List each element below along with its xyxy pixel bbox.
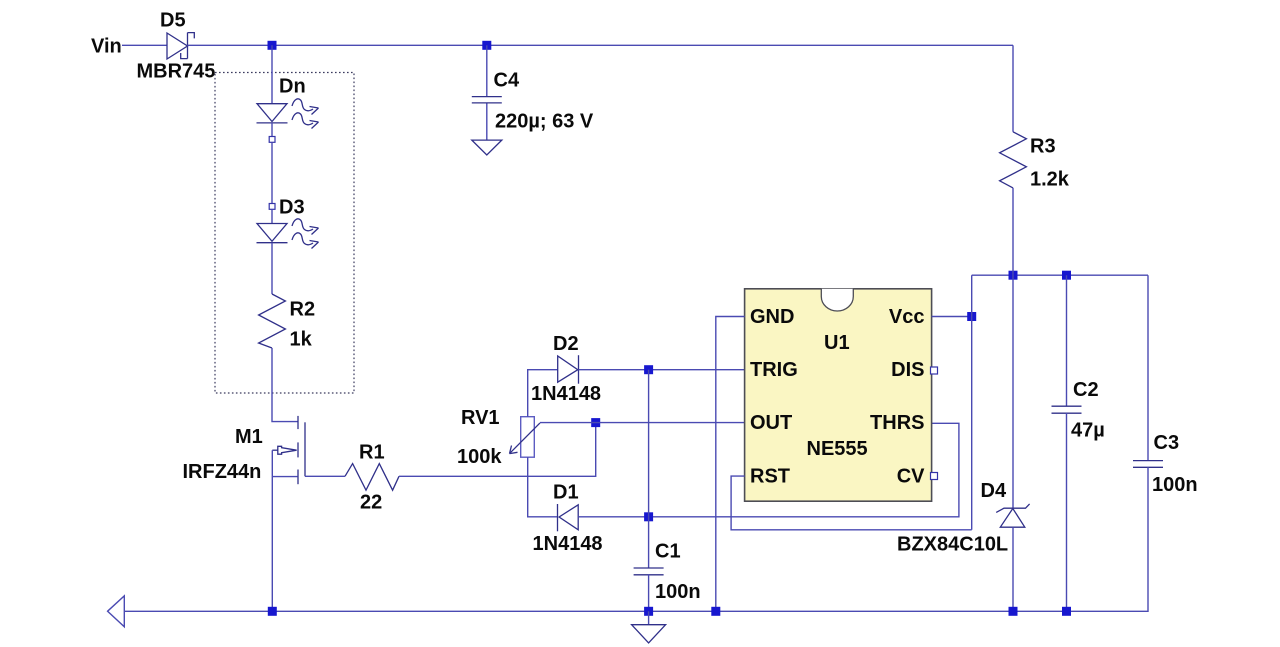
capacitor C1 — [634, 568, 664, 575]
zener diode D4 — [996, 504, 1029, 527]
svg-text:100k: 100k — [457, 446, 502, 468]
wire pot top to D2 line — [528, 370, 558, 417]
svg-text:47µ: 47µ — [1071, 420, 1105, 442]
svg-text:D4: D4 — [981, 480, 1007, 502]
value MBR745 — [137, 60, 216, 82]
wire C1 ground stub — [648, 611, 650, 624]
svg-text:Vin: Vin — [91, 36, 122, 58]
pin label GND — [750, 306, 794, 328]
wire Dn to pin square — [271, 123, 273, 137]
junction node bottom rail C1 — [644, 607, 653, 616]
junction node bottom rail GND wire — [711, 607, 720, 616]
junction node bottom rail M1 — [268, 607, 277, 616]
wire pin square to D3 pin square — [271, 142, 273, 203]
wire D4 to bottom rail — [1012, 527, 1014, 611]
value 22 — [360, 492, 382, 514]
svg-text:1N4148: 1N4148 — [533, 533, 603, 555]
pin label CV — [897, 466, 925, 488]
label R1 — [359, 442, 385, 464]
junction node Vcc — [967, 312, 976, 321]
dotted LED group box — [215, 73, 354, 394]
label C1 — [655, 541, 681, 563]
value NE555 — [807, 438, 868, 460]
junction node top rail / C4 branch — [482, 41, 491, 50]
svg-text:1N4148: 1N4148 — [531, 383, 601, 405]
potentiometer RV1 — [510, 417, 541, 458]
wire top rail corner to R3 — [1012, 45, 1014, 132]
pin square CV — [931, 473, 938, 480]
svg-text:TRIG: TRIG — [750, 359, 798, 381]
wire top-right rail — [972, 274, 1148, 276]
value 1N4148 lower — [533, 533, 603, 555]
label C3 — [1154, 432, 1180, 454]
svg-text:Vcc: Vcc — [889, 306, 925, 328]
wire C4 to ground — [486, 104, 488, 141]
junction node bottom rail C2 — [1062, 607, 1071, 616]
svg-text:C3: C3 — [1154, 432, 1180, 454]
pin square DIS — [931, 367, 938, 374]
wire M1 body to R1 — [305, 475, 345, 477]
diode D1 — [558, 504, 579, 531]
svg-text:C4: C4 — [494, 70, 520, 92]
wire RST pin to Vcc riser — [731, 476, 972, 530]
wire C4 branch down — [486, 45, 488, 96]
svg-text:RST: RST — [750, 466, 790, 488]
value 1k — [290, 329, 313, 351]
LED Dn — [257, 99, 319, 129]
wire LED branch from top rail to Dn — [271, 45, 273, 103]
junction node bottom rail D4 — [1009, 607, 1018, 616]
svg-text:U1: U1 — [824, 332, 850, 354]
svg-text:NE555: NE555 — [807, 438, 868, 460]
label D5 — [160, 10, 186, 32]
svg-text:C2: C2 — [1073, 379, 1099, 401]
value 1N4148 upper — [531, 383, 601, 405]
pin label OUT — [750, 412, 792, 434]
node Vin label — [91, 36, 122, 58]
svg-text:D2: D2 — [553, 333, 579, 355]
value 100n C1 — [655, 581, 701, 603]
junction node TRIG/C1 — [644, 365, 653, 374]
wire pot bottom to D1 line — [528, 457, 558, 517]
ground symbol below C1 — [632, 625, 666, 643]
label D2 — [553, 333, 579, 355]
wire D2 to TRIG — [579, 369, 745, 371]
value 220u 63V — [495, 111, 594, 133]
value 47u — [1071, 420, 1105, 442]
junction node top rail / LED branch — [268, 41, 277, 50]
wire GND pin to bottom rail — [716, 317, 745, 612]
junction node R3/D4 branch — [1009, 271, 1018, 280]
svg-text:CV: CV — [897, 466, 925, 488]
wire C1 branch — [648, 370, 650, 568]
svg-text:Dn: Dn — [279, 76, 306, 98]
ground return arrow left — [108, 596, 125, 627]
svg-text:100n: 100n — [1152, 474, 1198, 496]
junction node OUT wire — [591, 418, 600, 427]
capacitor C2 — [1052, 406, 1082, 413]
diode D2 — [558, 355, 579, 384]
label C4 — [494, 70, 520, 92]
wire top rail D5 to R3 corner — [188, 44, 1014, 46]
wire C2 to bottom rail — [1066, 413, 1068, 611]
resistor R3 — [1000, 132, 1027, 188]
svg-text:MBR745: MBR745 — [137, 60, 216, 82]
junction node C2 branch — [1062, 271, 1071, 280]
pin square above D3 — [269, 204, 275, 210]
label D3 — [279, 197, 305, 219]
wire D3 to R2 — [271, 243, 273, 294]
svg-text:DIS: DIS — [891, 359, 924, 381]
value BZX84C10L — [897, 534, 1008, 556]
wire C3 to bottom rail corner — [124, 467, 1148, 611]
value 100k — [457, 446, 502, 468]
label U1 — [824, 332, 850, 354]
wire Vin to D5 anode — [122, 44, 167, 46]
wire C2 branch upper — [1066, 275, 1068, 406]
label C2 — [1073, 379, 1099, 401]
diode D5 (Schottky) — [167, 33, 194, 59]
svg-text:OUT: OUT — [750, 412, 792, 434]
transistor M1 (NMOS) — [272, 416, 305, 484]
wire R3 to D4 — [1012, 188, 1014, 508]
value IRFZ44n — [183, 461, 262, 483]
wire Vcc riser — [971, 275, 973, 530]
svg-text:D5: D5 — [160, 10, 186, 32]
ground symbol below C4 — [472, 140, 502, 155]
svg-text:D3: D3 — [279, 197, 305, 219]
wire OUT to 555 — [540, 422, 745, 424]
capacitor C4 — [472, 97, 502, 103]
wire R1 to OUT riser — [399, 423, 596, 477]
pin label DIS — [891, 359, 924, 381]
LED D3 — [257, 219, 319, 249]
pin label THRS — [870, 412, 924, 434]
svg-text:100n: 100n — [655, 581, 701, 603]
svg-text:BZX84C10L: BZX84C10L — [897, 534, 1008, 556]
wire D3 pin square to D3 — [271, 209, 273, 223]
label D4 — [981, 480, 1007, 502]
svg-text:GND: GND — [750, 306, 794, 328]
svg-text:IRFZ44n: IRFZ44n — [183, 461, 262, 483]
svg-text:RV1: RV1 — [461, 407, 500, 429]
label R2 — [290, 299, 316, 321]
value 100n C3 — [1152, 474, 1198, 496]
pin square between Dn and D3 — [269, 137, 275, 143]
pin label RST — [750, 466, 790, 488]
IC U1 NE555 body — [745, 289, 932, 501]
svg-text:D1: D1 — [553, 482, 579, 504]
label M1 — [235, 426, 263, 448]
svg-text:R3: R3 — [1030, 136, 1056, 158]
label D1 — [553, 482, 579, 504]
junction node D1/C1 — [644, 512, 653, 521]
svg-text:THRS: THRS — [870, 412, 924, 434]
value 1.2k — [1030, 169, 1070, 191]
svg-text:1.2k: 1.2k — [1030, 169, 1070, 191]
resistor R1 — [345, 464, 399, 491]
svg-text:M1: M1 — [235, 426, 263, 448]
svg-text:22: 22 — [360, 492, 382, 514]
resistor R2 — [259, 294, 286, 348]
wire M1 gate/source to bottom rail — [271, 450, 273, 611]
svg-text:1k: 1k — [290, 329, 313, 351]
svg-text:220µ; 63 V: 220µ; 63 V — [495, 111, 594, 133]
wire Vcc pin stub — [932, 316, 972, 318]
wire R2 to M1 drain — [272, 348, 298, 422]
capacitor C3 — [1133, 461, 1163, 468]
svg-text:R1: R1 — [359, 442, 385, 464]
wire D1 to THRS riser — [578, 423, 959, 517]
pin label Vcc — [889, 306, 925, 328]
label R3 — [1030, 136, 1056, 158]
svg-text:C1: C1 — [655, 541, 681, 563]
wire M1 source lead — [272, 476, 297, 478]
svg-text:R2: R2 — [290, 299, 316, 321]
pin label TRIG — [750, 359, 798, 381]
wire C1 to bottom rail — [648, 574, 650, 611]
label RV1 — [461, 407, 500, 429]
label Dn — [279, 76, 306, 98]
wire C3 branch upper — [1147, 275, 1149, 460]
